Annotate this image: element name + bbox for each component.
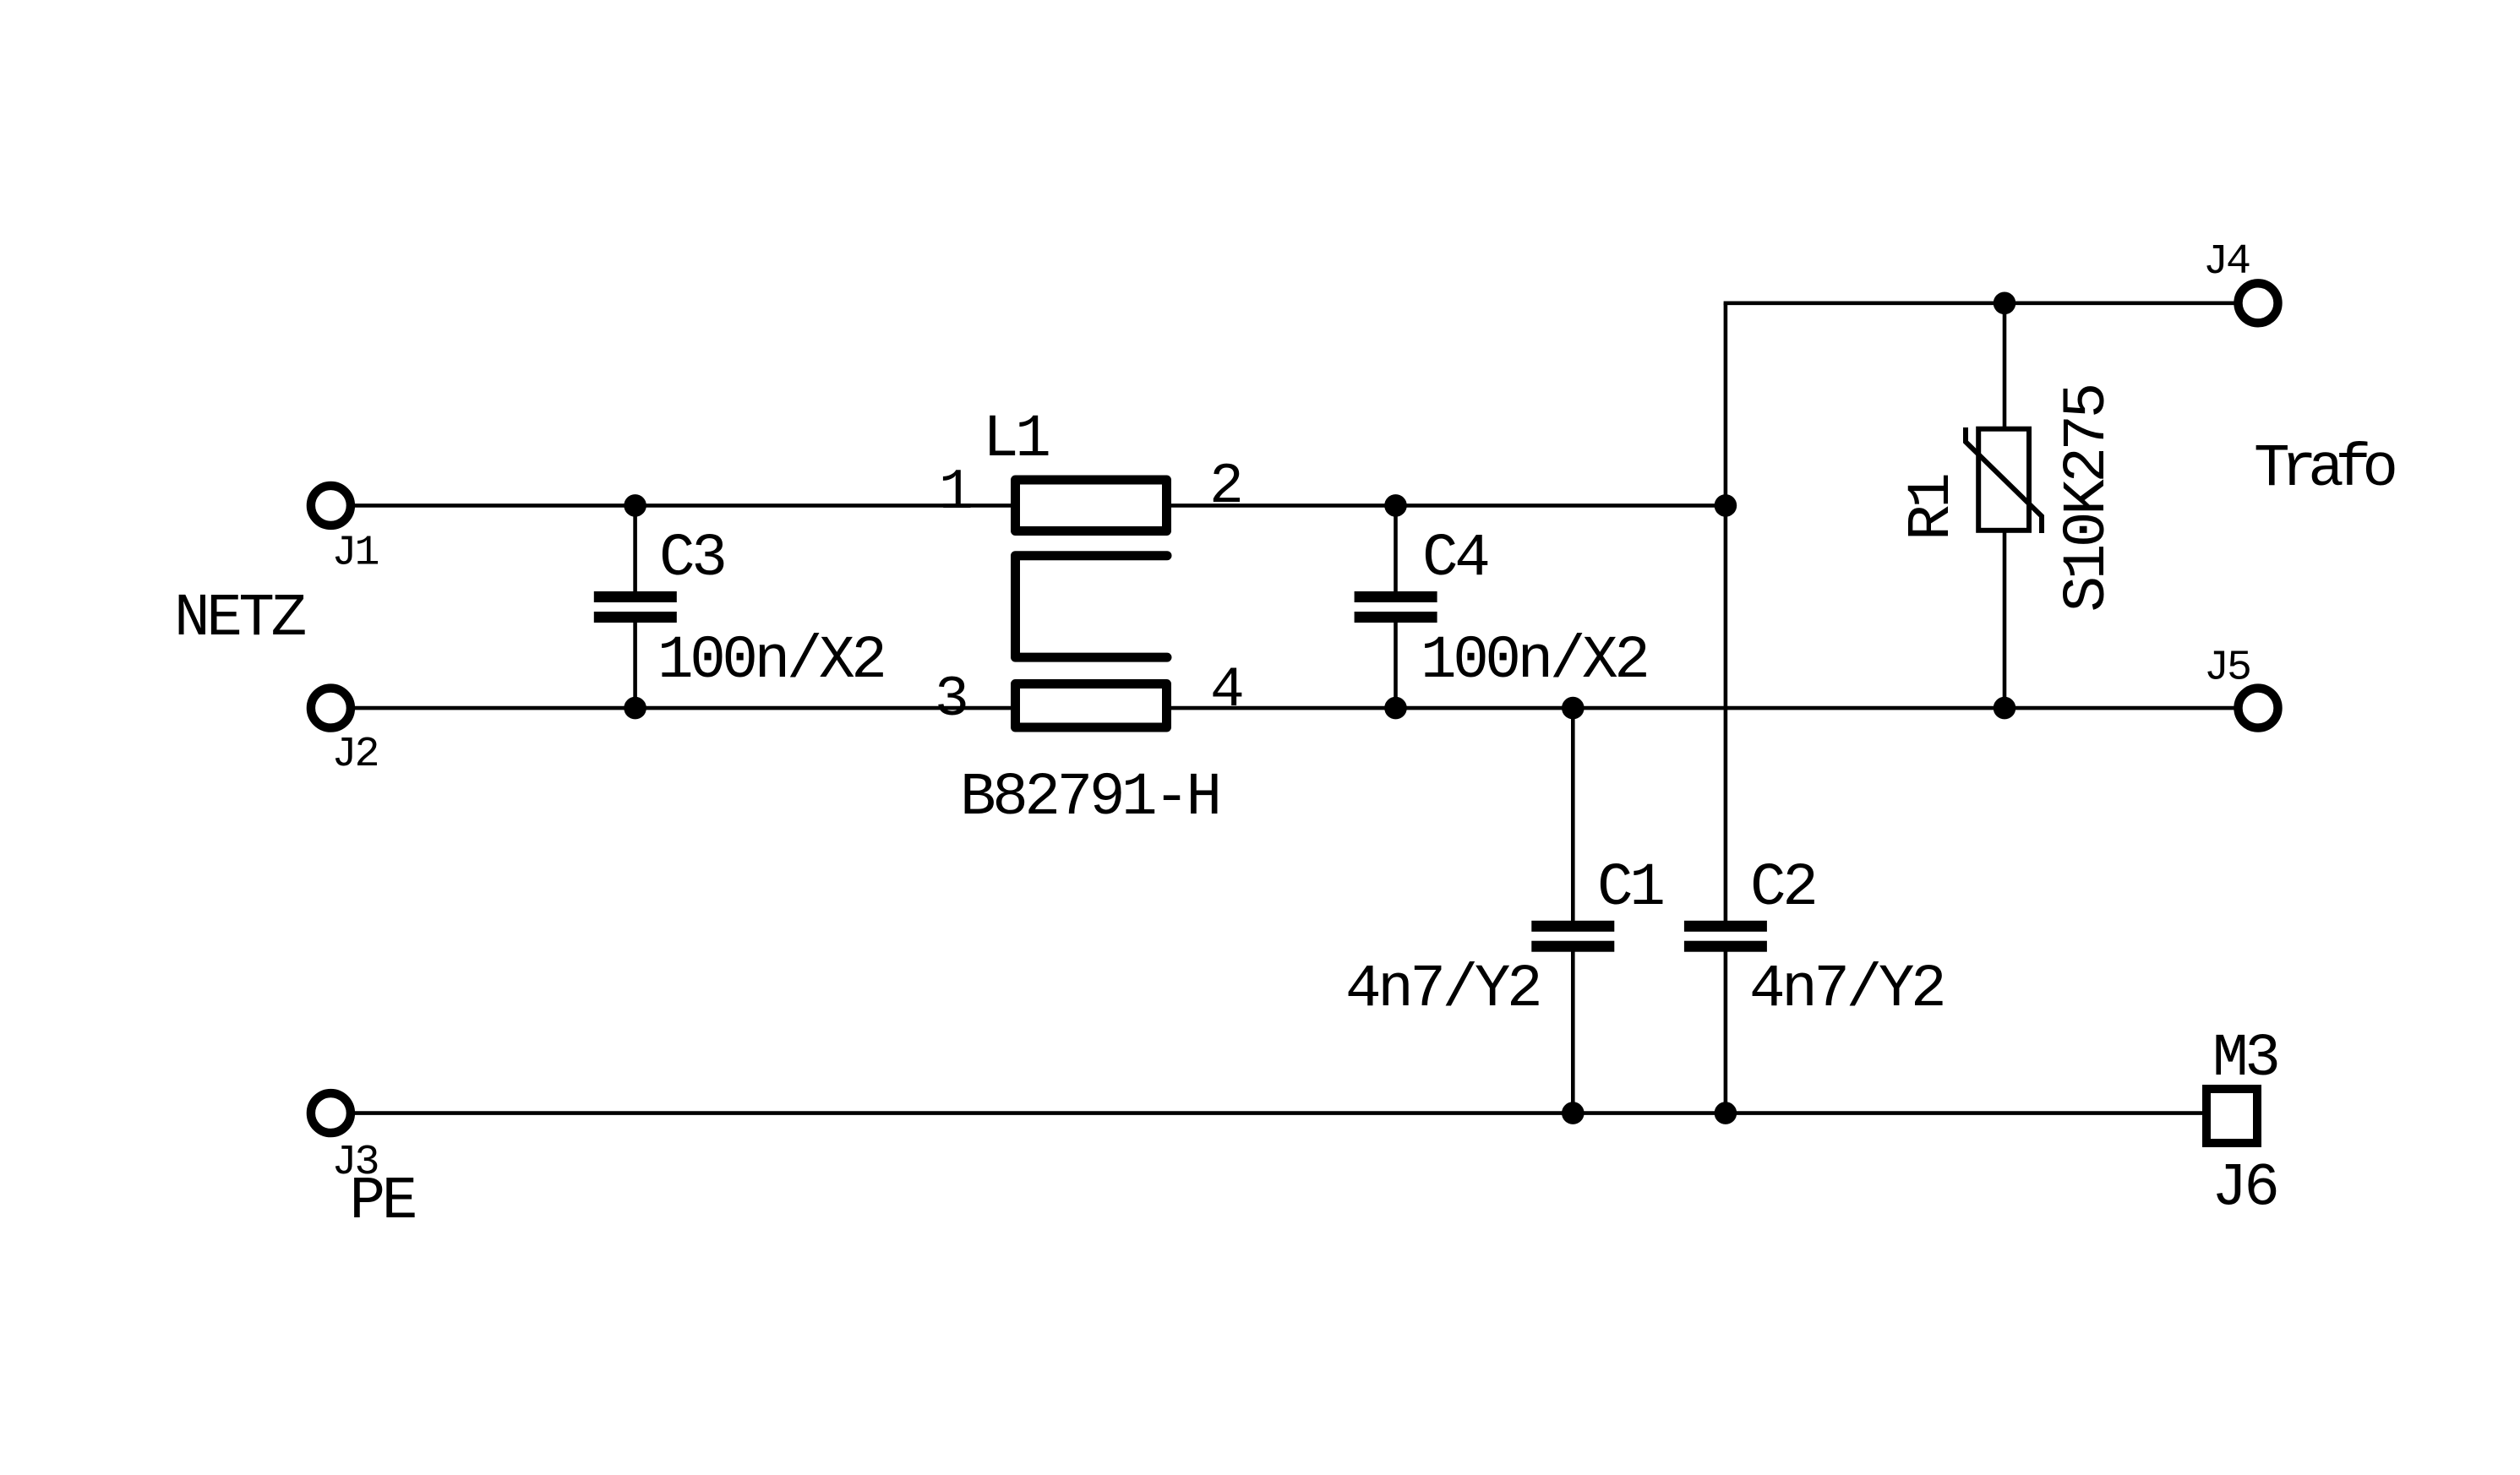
junction dot C1 top xyxy=(1562,697,1585,720)
svg-text:J5: J5 xyxy=(2204,645,2250,693)
capacitor C1 xyxy=(1531,921,1614,952)
mounting pad M3/J6 xyxy=(2206,1089,2257,1143)
svg-text:4: 4 xyxy=(1210,658,1245,723)
svg-text:J3: J3 xyxy=(332,1139,378,1187)
svg-text:3: 3 xyxy=(935,667,969,732)
inductor L1 core bracket xyxy=(1016,556,1168,657)
svg-text:J1: J1 xyxy=(332,530,379,578)
capacitor C3 xyxy=(594,591,677,623)
junction dot R1 bottom xyxy=(1994,697,2016,720)
wire W4 PE line xyxy=(355,1111,2203,1115)
junction dot C3 top xyxy=(624,494,646,517)
inductor L1 winding 1 xyxy=(1016,480,1167,531)
svg-text:4n7/Y2: 4n7/Y2 xyxy=(1345,956,1539,1024)
wire C2 vertical branch lower xyxy=(1724,946,1728,1113)
wire W1 upper mains line xyxy=(355,503,1726,508)
inductor L1 winding 2 xyxy=(1016,684,1167,728)
svg-text:R1: R1 xyxy=(1899,475,1966,541)
svg-text:Trafo: Trafo xyxy=(2254,436,2395,503)
connector J3 xyxy=(311,1093,351,1133)
svg-text:L1: L1 xyxy=(983,406,1049,474)
wire C1 vertical lower xyxy=(1571,946,1575,1113)
svg-text:2: 2 xyxy=(1209,454,1244,520)
junction dot C1 on PE xyxy=(1562,1102,1585,1124)
svg-text:J4: J4 xyxy=(2203,238,2250,286)
svg-text:M3: M3 xyxy=(2212,1026,2277,1093)
svg-text:100n/X2: 100n/X2 xyxy=(657,628,883,695)
capacitor C2 xyxy=(1684,921,1767,952)
junction dot C4 top xyxy=(1384,494,1407,517)
junction dot R1 top xyxy=(1994,292,2016,315)
junction dot C4 bottom xyxy=(1384,697,1407,720)
connector J1 xyxy=(311,486,351,525)
svg-text:4n7/Y2: 4n7/Y2 xyxy=(1749,956,1943,1024)
svg-text:C1: C1 xyxy=(1597,855,1663,923)
wire R1 vertical lower xyxy=(2003,529,2007,708)
junction dot C3 bottom xyxy=(624,697,646,720)
wire W2 lower mains line xyxy=(355,706,2234,710)
svg-text:C3: C3 xyxy=(659,525,724,593)
svg-text:C4: C4 xyxy=(1422,525,1487,593)
wire C3 vertical upper xyxy=(633,505,637,596)
wire C3 vertical lower xyxy=(633,617,637,708)
svg-text:C2: C2 xyxy=(1750,855,1814,923)
connector J4 xyxy=(2239,283,2278,323)
wire C4 vertical upper xyxy=(1394,505,1398,596)
svg-text:S10K275: S10K275 xyxy=(2054,385,2122,612)
varistor R1 body xyxy=(1978,429,2029,531)
wire W3 top line to J4 xyxy=(1724,301,2234,305)
svg-text:1: 1 xyxy=(939,460,974,525)
svg-text:NETZ: NETZ xyxy=(174,585,306,653)
wire R1 vertical upper xyxy=(2003,303,2007,431)
junction dot W1 to C2 branch xyxy=(1715,494,1737,517)
svg-text:100n/X2: 100n/X2 xyxy=(1421,628,1646,695)
junction dot C2 on PE xyxy=(1715,1102,1737,1124)
wire C1 vertical upper xyxy=(1571,708,1575,926)
connector J5 xyxy=(2239,689,2278,728)
connector J2 xyxy=(311,689,351,728)
wire C4 vertical lower xyxy=(1394,617,1398,708)
svg-text:J6: J6 xyxy=(2212,1156,2276,1223)
capacitor C4 xyxy=(1355,591,1437,623)
svg-text:B82791-H: B82791-H xyxy=(960,765,1219,832)
varistor R1 diagonal xyxy=(1966,427,2042,533)
svg-text:J2: J2 xyxy=(332,731,378,779)
wire C2 vertical branch xyxy=(1724,303,1728,926)
